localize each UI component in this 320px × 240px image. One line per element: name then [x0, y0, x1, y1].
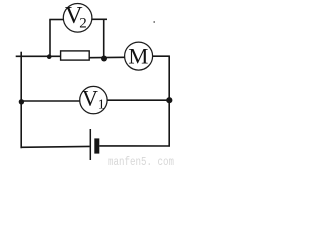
svg-text:1: 1	[98, 98, 105, 113]
wire V2 left stub	[49, 19, 63, 21]
wire left vertical	[20, 52, 22, 149]
wire battery to bottom right	[99, 145, 170, 147]
svg-text:manfen5. com: manfen5. com	[108, 156, 174, 167]
wire V1 left	[21, 100, 80, 102]
wire top right of resistor to motor	[89, 56, 125, 58]
stray speck	[154, 21, 155, 22]
battery cell: thick short plate (negative)	[94, 138, 99, 153]
node left V1 tee (junction dot)	[19, 99, 24, 104]
battery cell: long plate (positive)	[89, 129, 91, 160]
svg-text:M: M	[128, 44, 148, 69]
wire V2 right stub (overshoot right)	[92, 18, 107, 20]
svg-text:V: V	[82, 85, 98, 110]
wire V1 right	[107, 99, 169, 101]
node right of resistor (junction dot)	[101, 56, 107, 62]
wire bottom left to battery	[21, 145, 90, 148]
wire V2 loop left vertical	[49, 20, 51, 57]
motor M	[125, 42, 153, 70]
resistor R	[61, 51, 90, 60]
svg-text:2: 2	[79, 15, 87, 31]
voltmeter V2	[63, 2, 92, 32]
wire motor right stub	[153, 55, 170, 57]
wire top-left horizontal (corner overshoot left)	[16, 55, 61, 57]
node left of resistor (junction dot)	[47, 54, 52, 59]
wire V2 loop right vertical	[103, 19, 105, 58]
wire right vertical	[168, 56, 170, 146]
node right V1 tee (junction dot)	[166, 97, 172, 103]
voltmeter V1	[80, 85, 107, 114]
